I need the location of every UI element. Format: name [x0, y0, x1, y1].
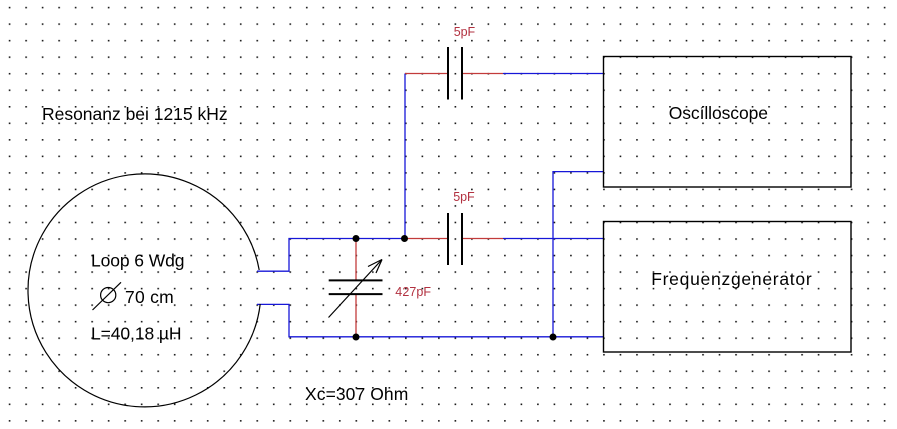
- capacitor C1 lead: [405, 73, 503, 75]
- svg-text:5pF: 5pF: [453, 190, 475, 204]
- svg-text:L=40,18 µH: L=40,18 µH: [91, 324, 182, 344]
- svg-text:70 cm: 70 cm: [125, 287, 174, 307]
- wire: [257, 239, 404, 272]
- svg-text:Loop 6 Wdg: Loop 6 Wdg: [91, 251, 185, 271]
- value label 5pF: [453, 190, 475, 204]
- label Resonanz bei 1215 kHz: [42, 104, 228, 124]
- node junction: [401, 235, 408, 242]
- wire: [257, 304, 604, 336]
- label L=40,18 uH: [91, 324, 182, 344]
- label Xc=307 Ohm: [305, 384, 408, 404]
- node junction: [353, 235, 360, 242]
- svg-text:Xc=307 Ohm: Xc=307 Ohm: [305, 384, 408, 404]
- value label 5pF: [454, 25, 476, 39]
- label 70 cm: [125, 287, 174, 307]
- capacitor C3 lead: [355, 239, 357, 337]
- svg-text:5pF: 5pF: [454, 25, 476, 39]
- svg-text:Frequenzgenerator: Frequenzgenerator: [651, 269, 812, 289]
- svg-text:Resonanz bei 1215 kHz: Resonanz bei 1215 kHz: [42, 104, 228, 124]
- wire: [503, 238, 604, 240]
- node junction: [353, 334, 360, 341]
- svg-text:427pF: 427pF: [395, 285, 431, 299]
- svg-text:Oscílloscope: Oscílloscope: [669, 103, 768, 123]
- capacitor C2 lead: [404, 238, 503, 240]
- wire: [404, 74, 406, 239]
- wire: [503, 73, 604, 75]
- diameter symbol: [93, 282, 122, 310]
- node junction: [550, 334, 557, 341]
- wire: [553, 172, 604, 337]
- inductor L1 loop antenna: [28, 174, 260, 407]
- variable capacitor C3: [329, 260, 383, 318]
- capacitor C1: [448, 47, 462, 100]
- box Frequenzgenerator: [604, 222, 852, 353]
- capacitor C2: [448, 213, 462, 265]
- box Oscilloscope: [604, 57, 852, 188]
- value label 427pF: [395, 285, 431, 299]
- label Loop 6 Wdg: [91, 251, 185, 271]
